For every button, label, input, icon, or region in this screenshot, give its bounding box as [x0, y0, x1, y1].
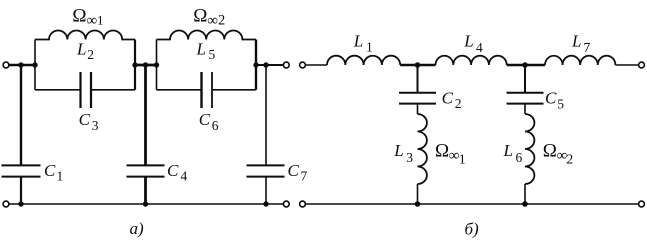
wire rail box2 to output	[256, 64, 283, 66]
node C4 tap bottom	[143, 201, 148, 206]
svg-text:L: L	[196, 40, 206, 59]
wire C1 branch upper	[20, 65, 22, 165]
inductor L4	[436, 56, 507, 65]
capacitor C6	[202, 72, 213, 108]
terminal input bottom (circuit a)	[3, 201, 9, 207]
svg-text:Ω: Ω	[435, 141, 449, 162]
terminal output top (circuit a)	[283, 62, 289, 68]
svg-text:∞: ∞	[87, 13, 98, 29]
box L2C3 right edge	[134, 40, 136, 90]
svg-text:Ω: Ω	[543, 141, 557, 162]
wire branch1 lower	[417, 184, 419, 204]
node C4 tap top	[143, 62, 148, 67]
inductor L3	[418, 114, 427, 184]
svg-text:1: 1	[57, 169, 64, 184]
wire C1 branch lower	[20, 177, 22, 204]
wire rail box1 to box2	[135, 64, 157, 67]
svg-text:Ω: Ω	[193, 6, 207, 27]
node box2 left	[154, 62, 159, 67]
svg-text:Ω: Ω	[72, 6, 86, 27]
wire C7 branch upper	[265, 65, 267, 165]
svg-text:C: C	[199, 110, 211, 129]
capacitor C2	[399, 93, 436, 104]
svg-text:а): а)	[130, 219, 145, 238]
capacitor C4	[127, 165, 165, 176]
wire branch2 upper	[524, 65, 526, 93]
svg-text:3: 3	[92, 118, 99, 133]
svg-text:6: 6	[516, 150, 523, 165]
svg-text:L: L	[571, 31, 581, 50]
terminal input top (circuit b)	[300, 62, 306, 68]
svg-text:L: L	[503, 141, 513, 160]
wire box1 bottom right	[92, 89, 135, 91]
svg-text:∞: ∞	[207, 13, 218, 29]
svg-text:5: 5	[557, 97, 564, 112]
wire input top rail	[9, 64, 35, 67]
svg-text:5: 5	[209, 47, 216, 62]
wire C7 branch lower	[265, 177, 267, 204]
svg-text:C: C	[442, 89, 454, 108]
terminal input bottom (circuit b)	[300, 201, 306, 207]
node branch1 top	[415, 62, 421, 68]
capacitor C1	[2, 165, 41, 176]
svg-text:4: 4	[181, 169, 188, 184]
terminal output bottom (circuit b)	[639, 201, 645, 207]
box L5C6 left edge	[156, 40, 158, 90]
svg-text:7: 7	[301, 169, 308, 184]
terminal output top (circuit b)	[639, 62, 645, 68]
inductor L2	[35, 30, 135, 39]
wire box2 bottom left	[157, 89, 201, 91]
capacitor C3	[81, 72, 92, 108]
svg-text:C: C	[167, 161, 179, 180]
wire bottom rail (circuit a)	[9, 203, 283, 205]
svg-text:L: L	[463, 31, 473, 50]
wire C4 branch lower	[144, 177, 147, 204]
wire box1 bottom left	[35, 89, 80, 91]
svg-text:2: 2	[455, 96, 462, 111]
wire C4 branch upper	[144, 65, 147, 165]
wire branch1 upper	[417, 65, 419, 93]
wire branch1 mid	[417, 104, 419, 114]
box L2C3 left edge	[34, 40, 36, 90]
svg-text:1: 1	[459, 152, 466, 167]
terminal input top (circuit a)	[3, 62, 9, 68]
node box2 right	[253, 62, 258, 67]
wire box2 bottom right	[213, 89, 256, 91]
capacitor C5	[507, 93, 544, 104]
svg-text:6: 6	[212, 118, 219, 133]
inductor L7	[545, 56, 615, 65]
node branch2 bottom	[522, 201, 528, 207]
node box1 left	[32, 62, 37, 67]
node box1 right	[132, 62, 137, 67]
svg-text:L: L	[76, 40, 86, 59]
wire L1 to L4	[400, 64, 435, 67]
svg-text:1: 1	[97, 12, 104, 27]
svg-text:4: 4	[476, 40, 483, 55]
svg-text:L: L	[353, 31, 363, 50]
svg-text:C: C	[288, 161, 300, 180]
svg-text:2: 2	[218, 12, 225, 28]
svg-text:L: L	[393, 141, 403, 160]
svg-text:2: 2	[566, 152, 573, 167]
inductor L5	[157, 30, 257, 39]
node C1 tap bottom	[18, 201, 23, 206]
node branch2 top	[522, 62, 528, 68]
svg-text:1: 1	[366, 40, 373, 55]
inductor L6	[525, 114, 534, 184]
terminal output bottom (circuit a)	[283, 201, 289, 207]
wire input (circuit b)	[306, 64, 328, 66]
wire branch2 mid	[524, 104, 526, 114]
node C7 tap top	[263, 62, 268, 67]
wire branch2 lower	[524, 184, 526, 204]
svg-text:3: 3	[406, 150, 413, 165]
box L5C6 right edge	[255, 40, 257, 90]
capacitor C7	[247, 165, 285, 176]
svg-text:7: 7	[584, 40, 591, 55]
svg-text:2: 2	[87, 47, 94, 62]
wire L7 to output	[615, 64, 638, 66]
svg-text:C: C	[79, 110, 91, 129]
wire L4 to L7	[507, 64, 545, 67]
svg-text:C: C	[44, 161, 56, 180]
svg-text:C: C	[545, 89, 557, 108]
node C1 tap top	[18, 62, 23, 67]
svg-text:б): б)	[465, 220, 480, 239]
wire bottom rail (circuit b)	[306, 203, 639, 205]
inductor L1	[327, 56, 400, 65]
node C7 tap bottom	[263, 201, 268, 206]
node branch1 bottom	[415, 201, 421, 207]
